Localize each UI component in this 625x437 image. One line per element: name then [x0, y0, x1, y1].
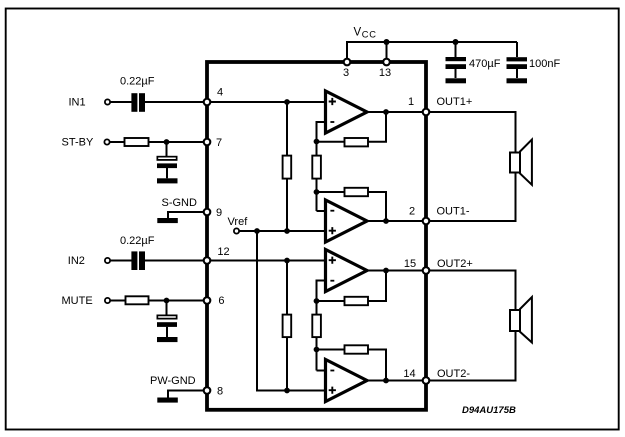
op-amp B (OUT1-)	[326, 200, 368, 242]
resistor R8 (feedback C)	[345, 297, 369, 305]
Vcc label	[354, 27, 377, 40]
pin 7	[204, 137, 222, 149]
wire IN1 to C1	[111, 101, 132, 103]
wire R3 top	[286, 102, 288, 156]
junction B minus	[314, 189, 320, 195]
resistor R7 (input divider ch2)	[283, 315, 292, 338]
wire R1 to pin7	[149, 141, 208, 143]
pin 6	[204, 295, 225, 307]
wire Vref line to opamp B plus	[240, 230, 326, 232]
svg-text:IN1: IN1	[69, 96, 86, 108]
IC body U1	[207, 62, 426, 410]
wire pin15 to speaker SP2	[430, 271, 516, 311]
ground below C4	[157, 337, 178, 342]
wire B minus to R6	[317, 191, 345, 193]
svg-text:OUT2+: OUT2+	[437, 258, 473, 270]
wire C1 to pin4	[145, 101, 207, 103]
wire output C to pin15	[367, 270, 426, 272]
ground below 100nF	[507, 78, 528, 83]
wire junction to C2	[166, 142, 168, 157]
svg-text:D94AU175B: D94AU175B	[462, 405, 516, 416]
junction Vref/R3	[284, 228, 290, 234]
terminal IN1	[105, 99, 110, 104]
svg-text:S-GND: S-GND	[162, 197, 198, 209]
wire D minus to R10	[317, 349, 345, 351]
svg-text:3: 3	[343, 67, 349, 79]
svg-text:IN2: IN2	[68, 255, 85, 267]
pin 4	[204, 86, 223, 105]
svg-text:CC: CC	[362, 29, 377, 39]
wire pin8 to PW-GND ground	[168, 391, 207, 398]
wire C minus to R8	[317, 300, 345, 302]
resistor R2 (MUTE)	[126, 296, 149, 304]
junction Vref bottom/R7	[284, 388, 290, 394]
op-amp D (OUT2-)	[326, 360, 368, 402]
pin 9	[204, 207, 222, 219]
wire R4 to output A	[368, 112, 387, 142]
resistor R3 (input divider ch1)	[283, 156, 292, 179]
svg-text:470µF: 470µF	[469, 58, 501, 70]
pin 1	[408, 96, 429, 115]
svg-text:0.22µF: 0.22µF	[120, 75, 155, 87]
resistor R10 (feedback D)	[345, 345, 369, 353]
svg-text:14: 14	[403, 368, 415, 380]
wire B minus into opamp	[317, 210, 326, 212]
wire R6 to output B	[368, 192, 387, 221]
wire R5 bottom to B minus node	[316, 178, 318, 211]
wire pin9 to S-GND ground	[168, 212, 207, 218]
wire R7 bottom to Vref bottom line	[286, 337, 288, 391]
capacitor C2 (ST-BY, polarized)	[157, 156, 178, 179]
pin 2	[409, 206, 429, 225]
pin 12	[204, 246, 230, 264]
junction pin12/R7	[284, 258, 290, 264]
svg-text:7: 7	[216, 137, 222, 149]
junction output D	[383, 378, 389, 384]
wire output D to pin14	[367, 380, 426, 382]
resistor R5 (between minus nodes ch1)	[312, 156, 321, 179]
wire R7 top	[286, 261, 288, 316]
junction D minus	[314, 347, 320, 353]
wire pin4 to opamp A plus	[207, 101, 326, 103]
junction Vref/down wire	[254, 228, 260, 234]
svg-text:100nF: 100nF	[529, 58, 560, 70]
pin 14	[403, 368, 429, 384]
wire opamp A minus node	[317, 122, 326, 156]
junction C minus	[314, 298, 320, 304]
junction output C	[383, 268, 389, 274]
wire Vref down and to opamp D plus	[257, 231, 326, 391]
svg-text:0.22µF: 0.22µF	[120, 235, 155, 247]
wire C3 to pin12	[145, 260, 207, 262]
junction A minus	[314, 139, 320, 145]
junction output B	[383, 218, 389, 224]
svg-text:OUT1-: OUT1-	[437, 206, 470, 218]
svg-text:13: 13	[379, 67, 391, 79]
capacitor C3 0.22uF	[131, 251, 145, 270]
svg-text:Vref: Vref	[228, 216, 249, 228]
op-amp C (OUT2+)	[326, 250, 368, 292]
svg-text:1: 1	[408, 96, 414, 108]
junction pin4/R3	[284, 99, 290, 105]
wire A minus to R4	[317, 141, 345, 143]
wire opamp C minus node	[317, 281, 326, 316]
resistor R4 (feedback A)	[345, 138, 369, 146]
resistor R1 (ST-BY)	[125, 138, 149, 146]
capacitor C1 0.22uF	[131, 93, 145, 112]
svg-text:ST-BY: ST-BY	[62, 136, 94, 148]
resistor R9 (between minus nodes ch2)	[312, 315, 321, 338]
capacitor 470uF	[446, 42, 467, 78]
wire D minus into opamp	[317, 370, 326, 372]
junction ST-BY node	[164, 139, 170, 145]
svg-text:9: 9	[216, 207, 222, 219]
wire pin2 to speaker SP1	[430, 173, 516, 222]
wire IN2 to C3	[111, 260, 132, 262]
pin 8	[204, 386, 223, 398]
ground below 470uF	[446, 78, 467, 83]
wire pin13 to rail	[386, 42, 388, 62]
wire output A to pin1	[367, 111, 426, 113]
terminal Vref	[234, 228, 239, 233]
svg-text:12: 12	[217, 246, 229, 258]
wire Vcc rail	[347, 42, 517, 62]
svg-text:V: V	[354, 27, 362, 39]
ground below C2	[157, 178, 178, 183]
wire pin1 to speaker SP1	[430, 112, 516, 153]
junction rail/pin13	[384, 39, 390, 45]
wire pin12 to opamp C plus	[207, 260, 326, 262]
svg-text:6: 6	[218, 295, 224, 307]
terminal IN2	[105, 258, 110, 263]
svg-text:OUT2-: OUT2-	[437, 368, 470, 380]
wire R8 to output C	[368, 271, 387, 302]
svg-text:PW-GND: PW-GND	[150, 375, 196, 387]
capacitor 100nF	[507, 42, 528, 78]
wire MUTE to R2	[111, 300, 126, 302]
pin 15	[404, 258, 429, 274]
terminal ST-BY	[104, 139, 109, 144]
svg-text:MUTE: MUTE	[62, 295, 93, 307]
capacitor C4 (MUTE, polarized)	[157, 315, 178, 338]
svg-text:15: 15	[404, 258, 416, 270]
svg-text:2: 2	[409, 206, 415, 218]
wire R10 to output D	[368, 350, 387, 381]
junction MUTE node	[164, 298, 170, 304]
wire pin14 to speaker SP2	[430, 331, 516, 381]
wire ST-BY to R1	[110, 141, 125, 143]
ground S-GND	[157, 218, 178, 223]
wire junction to C4	[166, 301, 168, 316]
svg-text:OUT1+: OUT1+	[437, 96, 473, 108]
wire output B to pin2	[367, 220, 426, 222]
wire R3 bottom to Vref	[286, 178, 288, 231]
wire R2 to pin6	[149, 300, 208, 302]
junction rail/C470	[453, 39, 459, 45]
terminal MUTE	[105, 298, 110, 303]
speaker SP2	[510, 297, 532, 343]
speaker SP1	[510, 140, 532, 185]
svg-text:8: 8	[217, 386, 223, 398]
wire R9 bottom to D minus node	[316, 337, 318, 371]
ground PW-GND	[157, 398, 178, 403]
svg-text:4: 4	[217, 86, 223, 98]
resistor R6 (feedback B)	[345, 188, 369, 196]
pin 13	[379, 59, 391, 79]
pin 3	[343, 59, 350, 79]
op-amp A (OUT1+)	[326, 91, 368, 133]
junction output A	[383, 109, 389, 115]
